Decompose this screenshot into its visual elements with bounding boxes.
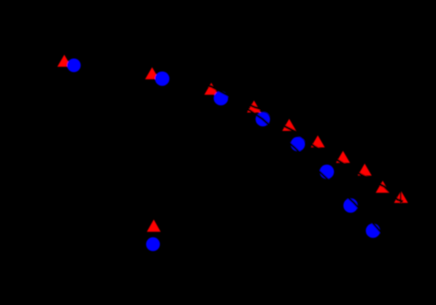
triangle T8	[358, 164, 372, 176]
legend marker: blue circle	[146, 237, 160, 251]
circle C4	[256, 112, 270, 126]
triangle T9	[376, 181, 390, 193]
triangle T6	[311, 135, 325, 147]
circle C5	[291, 137, 305, 151]
circle C2	[155, 72, 169, 86]
triangle T2	[145, 67, 159, 79]
legend marker: red triangle	[147, 220, 161, 232]
circle C1	[67, 59, 81, 73]
triangle T7	[336, 151, 350, 163]
circle C3	[214, 91, 228, 105]
black connecting line of triangle series drawn over markers	[204, 85, 403, 202]
circle C6	[320, 165, 334, 179]
circle C7	[343, 198, 357, 212]
triangle T5	[282, 119, 296, 131]
triangle T10	[394, 191, 408, 203]
black connecting line of circle series drawn over markers	[246, 108, 382, 233]
circle C8	[366, 224, 380, 238]
axes right spine crossing triangle T10	[400, 186, 402, 208]
triangle T1	[57, 55, 71, 67]
triangle T4	[247, 101, 261, 113]
triangle T3	[204, 83, 218, 95]
